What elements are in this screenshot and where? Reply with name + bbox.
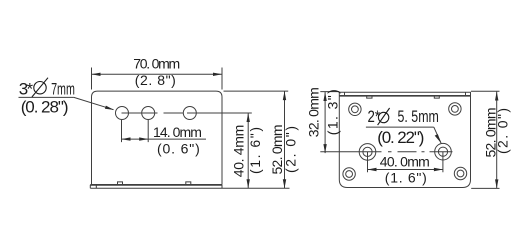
left view: plate outline bbox=[92, 91, 223, 185]
32mm dimension line bbox=[324, 92, 326, 153]
14mm dimension line bbox=[122, 138, 207, 140]
left view: fold line (thick bottom) bbox=[90, 184, 222, 186]
right view: strip end ticks bbox=[345, 92, 466, 96]
hole 3 bbox=[183, 107, 196, 120]
svg-text:40. 0mm: 40. 0mm bbox=[380, 154, 430, 170]
arrow 40mm right bbox=[434, 168, 443, 171]
arrow 70mm left bbox=[92, 73, 101, 76]
52mm (right) bottom extension line bbox=[471, 187, 499, 189]
40.4mm dimension line bbox=[247, 113, 249, 188]
diameter symbol of 2*d5.5mm bbox=[378, 112, 388, 122]
left view: bottom strip line + extension line bbox=[90, 187, 289, 189]
52mm (right) top extension line bbox=[471, 90, 500, 92]
svg-text:(1. 6"): (1. 6") bbox=[247, 127, 263, 174]
svg-text:(1. 6"): (1. 6") bbox=[385, 169, 427, 185]
svg-text:5. 5mm: 5. 5mm bbox=[398, 108, 439, 126]
left view: tab 1 bbox=[118, 182, 123, 185]
centerline through middle holes bbox=[320, 151, 452, 153]
70mm dimension line bbox=[92, 73, 223, 75]
label 3*d7mm underline bbox=[19, 96, 74, 98]
14mm dimension extension lines bbox=[122, 120, 149, 142]
right view: tab 1 bbox=[367, 96, 372, 98]
70mm dimension extension lines bbox=[92, 68, 223, 90]
svg-text:(2. 0"): (2. 0") bbox=[283, 126, 299, 173]
svg-text:40. 4mm: 40. 4mm bbox=[230, 125, 246, 178]
label 3*d7mm leader bbox=[74, 97, 114, 109]
40mm dimension extension lines bbox=[368, 152, 443, 173]
corner hole bottom-right bbox=[454, 167, 466, 179]
svg-text:32. 0mm: 32. 0mm bbox=[305, 87, 321, 137]
label 2*d5.5mm leader bbox=[434, 127, 441, 143]
arrow 52mm-left top bbox=[283, 91, 286, 100]
corner hole top-right bbox=[449, 103, 461, 115]
arrow 14mm left bbox=[122, 137, 131, 140]
arrow 52mm-left bottom bbox=[283, 179, 286, 188]
left view: tab 2 bbox=[186, 182, 191, 185]
arrow 40.4mm top bbox=[247, 113, 250, 122]
right view: tab 2 bbox=[434, 96, 439, 98]
middle hole left bbox=[359, 144, 376, 161]
svg-text:(1. 3"): (1. 3") bbox=[325, 89, 341, 135]
arrow 52mm-right bottom bbox=[495, 179, 498, 188]
arrow 70mm right bbox=[213, 73, 222, 76]
52mm (left) dimension line bbox=[284, 91, 286, 188]
svg-text:3*: 3* bbox=[19, 80, 34, 99]
right view: plate outline bbox=[339, 92, 470, 187]
arrow 32mm top bbox=[323, 92, 326, 101]
hole 1 bbox=[116, 107, 129, 120]
arrow 40mm left bbox=[368, 168, 377, 171]
arrow leader 2*d5.5mm bbox=[435, 134, 441, 143]
right view: fold line (thick top) bbox=[339, 95, 470, 97]
svg-text:7mm: 7mm bbox=[51, 80, 75, 99]
svg-text:(0. 22"): (0. 22") bbox=[377, 128, 424, 147]
svg-text:(2. 8"): (2. 8") bbox=[135, 72, 176, 88]
52mm (right) dimension line bbox=[496, 92, 498, 189]
label 2*d5.5mm underline bbox=[366, 126, 434, 128]
40mm dimension line bbox=[368, 169, 443, 171]
32mm top extension line bbox=[320, 91, 339, 93]
arrow leader 3*d7mm bbox=[105, 106, 114, 110]
52mm (left) top extension line bbox=[224, 90, 289, 92]
arrow 32mm bottom bbox=[323, 144, 326, 153]
left view: bottom strip bbox=[90, 185, 222, 188]
svg-text:(2. 0"): (2. 0") bbox=[495, 108, 511, 154]
corner hole bottom-left bbox=[343, 168, 355, 180]
middle hole right bbox=[435, 143, 452, 160]
svg-text:14. 0mm: 14. 0mm bbox=[153, 124, 202, 140]
arrow 40.4mm bottom bbox=[247, 179, 250, 188]
centerline through holes bbox=[122, 112, 252, 114]
svg-text:70. 0mm: 70. 0mm bbox=[133, 55, 180, 71]
corner hole top-left bbox=[349, 103, 361, 115]
hole 2 bbox=[142, 107, 155, 120]
svg-text:(0. 6"): (0. 6") bbox=[157, 141, 200, 157]
diameter symbol of 3*d7mm bbox=[34, 82, 46, 94]
arrow 52mm-right top bbox=[495, 92, 498, 101]
arrow 14mm right bbox=[139, 137, 148, 140]
svg-text:(0. 28"): (0. 28") bbox=[21, 98, 69, 117]
